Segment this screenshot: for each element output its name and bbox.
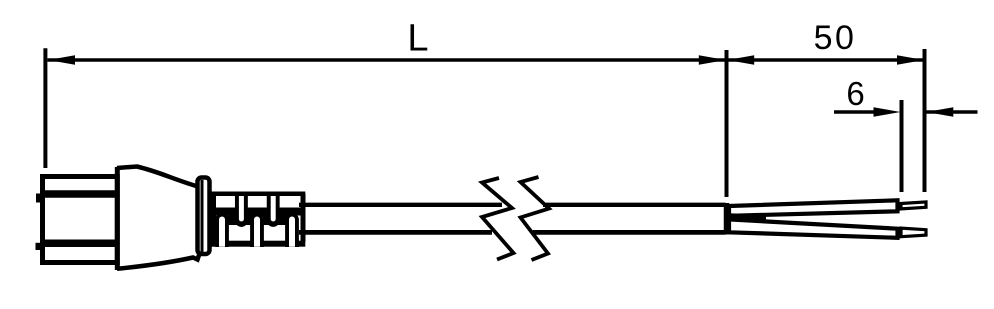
strain relief top slot 1 white core bbox=[239, 196, 244, 222]
upper wire stripped tip bbox=[901, 202, 926, 209]
cable top line right of break bbox=[543, 203, 726, 207]
svg-text:6: 6 bbox=[846, 75, 864, 112]
upper wire insulation bbox=[729, 200, 898, 216]
strain relief bottom rib envelope 2 bbox=[250, 213, 264, 247]
arrowhead L right bbox=[699, 55, 726, 64]
arrowhead 50 right bbox=[897, 55, 924, 64]
cable bottom line right of break bbox=[533, 230, 726, 235]
strain relief boot interior bbox=[210, 193, 304, 245]
extension line at insulation end bbox=[900, 100, 904, 192]
connector bell bottom edge bbox=[117, 255, 199, 269]
extension line at wire tip end bbox=[923, 49, 927, 192]
wire split black wedge bbox=[729, 213, 766, 222]
extension line left (at connector face) bbox=[43, 48, 47, 168]
strain relief serpentine band bbox=[211, 212, 303, 222]
connector flange inner line bbox=[201, 180, 204, 252]
lower wire stripped tip bbox=[901, 228, 926, 237]
arrowhead 6 right (pointing left) bbox=[926, 107, 953, 116]
connector band lower tab bbox=[36, 243, 44, 250]
svg-text:L: L bbox=[407, 18, 428, 60]
connector bell left edge bbox=[115, 167, 120, 270]
strain relief bottom edge bbox=[210, 241, 306, 247]
strain relief bottom rib envelope 3 bbox=[285, 213, 299, 247]
lower wire insulation bbox=[729, 219, 898, 237]
cable top line left of break bbox=[299, 203, 502, 207]
arrowhead L left bbox=[48, 55, 75, 64]
strain relief top slot 2 white core bbox=[271, 196, 276, 222]
cable break zigzag left bbox=[482, 178, 514, 260]
strain relief right edge bbox=[301, 193, 306, 242]
dimension line 6 right tail bbox=[926, 110, 978, 114]
connector band lower bbox=[40, 240, 117, 248]
strain relief left cap bar bbox=[210, 192, 217, 247]
cable bottom line left of break bbox=[299, 230, 492, 235]
strain relief bottom slot 1 white core bbox=[219, 217, 225, 247]
strain relief top rib envelope 1 bbox=[235, 192, 248, 227]
strain relief outer top edge bbox=[210, 191, 306, 196]
svg-text:50: 50 bbox=[814, 19, 857, 57]
connector body rectangle bbox=[43, 177, 118, 263]
connector band upper tab bbox=[36, 194, 43, 203]
dimension line L bbox=[48, 58, 727, 62]
dimension line 50 bbox=[727, 58, 925, 62]
strain relief top rib envelope 2 bbox=[267, 192, 280, 227]
cable break zigzag right bbox=[521, 177, 550, 260]
dimension line 6 left tail bbox=[834, 110, 876, 114]
connector band upper bbox=[40, 190, 117, 198]
arrowhead 50 left bbox=[727, 55, 754, 64]
extension line at cable end bbox=[725, 50, 729, 197]
strain relief bottom slot 3 white core bbox=[289, 217, 295, 247]
arrowhead 6 left (pointing right) bbox=[874, 107, 901, 116]
strain relief bottom rib envelope 1 bbox=[215, 213, 229, 247]
cable jacket end bbox=[724, 203, 730, 235]
connector bell top edge bbox=[117, 167, 198, 187]
strain relief bottom slot 2 white core bbox=[254, 217, 260, 247]
connector flange bbox=[198, 178, 210, 255]
